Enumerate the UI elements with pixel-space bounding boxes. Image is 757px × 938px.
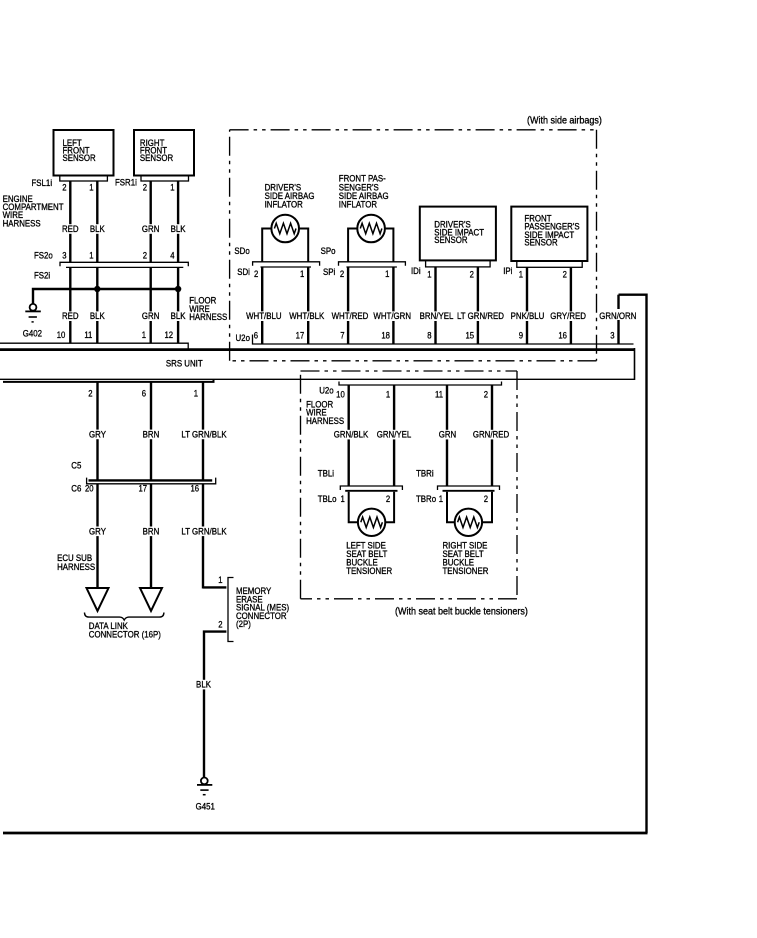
svg-text:2: 2 xyxy=(484,493,489,504)
ground G451 xyxy=(197,778,212,795)
connector MES bracket xyxy=(228,578,234,642)
connector bracket left (G402 row) with step xyxy=(0,343,188,349)
svg-text:LT GRN/BLK: LT GRN/BLK xyxy=(181,429,226,440)
connector bump right front sensor xyxy=(141,176,189,182)
connector SP bracket upper xyxy=(339,262,406,266)
svg-text:GRY/RED: GRY/RED xyxy=(550,310,586,321)
svg-text:TBRo: TBRo xyxy=(416,493,436,504)
wire GRY lower xyxy=(96,484,98,588)
wire GRN/YEL xyxy=(393,385,395,486)
wire GRN right sensor pin2 xyxy=(149,181,151,262)
wire BRN lower xyxy=(150,484,152,588)
wire GRN to SRS pin1 xyxy=(149,267,151,343)
svg-text:IDi: IDi xyxy=(411,265,421,276)
label FLOOR WIRE HARNESS xyxy=(189,295,227,322)
wire LT GRN/BLK lower xyxy=(202,484,204,589)
wire ground jumper xyxy=(33,289,178,304)
svg-text:(With side airbags): (With side airbags) xyxy=(527,115,602,127)
ground G402 xyxy=(25,304,41,322)
wire BRN upper xyxy=(150,382,152,481)
connector TBR bracket upper xyxy=(438,486,500,490)
svg-text:1: 1 xyxy=(427,269,432,280)
wire left tensioner lead 2 xyxy=(385,492,394,523)
label DRIVER'S SIDE IMPACT SENSOR xyxy=(434,219,484,246)
svg-text:4: 4 xyxy=(170,250,175,261)
wire PNK/BLU xyxy=(526,267,528,344)
wire right tensioner lead 1 xyxy=(447,492,455,523)
svg-text:CONNECTOR (16P): CONNECTOR (16P) xyxy=(89,629,161,640)
svg-text:PNK/BLU: PNK/BLU xyxy=(511,310,545,321)
svg-text:HARNESS: HARNESS xyxy=(3,218,41,229)
svg-text:10: 10 xyxy=(336,389,345,400)
connector bracket bottom-left with step xyxy=(3,379,214,382)
svg-text:2: 2 xyxy=(143,182,148,193)
svg-text:(2P): (2P) xyxy=(236,618,251,629)
box right front sensor xyxy=(134,130,194,176)
svg-text:HARNESS: HARNESS xyxy=(57,561,95,572)
wire WHT/BLU xyxy=(261,267,263,344)
svg-text:1: 1 xyxy=(439,493,444,504)
svg-text:GRN: GRN xyxy=(142,310,159,321)
wire GRY upper xyxy=(96,382,98,481)
svg-text:1: 1 xyxy=(194,388,199,399)
svg-text:7: 7 xyxy=(340,330,345,341)
wire GRN/ORN riser xyxy=(617,295,619,344)
junction dot BLK left xyxy=(94,286,100,292)
svg-text:BLK: BLK xyxy=(171,223,186,234)
svg-text:GRN/ORN: GRN/ORN xyxy=(599,310,636,321)
svg-text:WHT/BLU: WHT/BLU xyxy=(246,310,281,321)
svg-text:SENSOR: SENSOR xyxy=(140,152,173,163)
svg-text:BRN: BRN xyxy=(143,526,160,537)
svg-text:U2o: U2o xyxy=(236,332,251,343)
svg-text:BLK: BLK xyxy=(171,310,186,321)
wire RED to SRS pin10 xyxy=(69,267,71,343)
squib driver's side airbag inflator xyxy=(271,215,299,243)
svg-text:2: 2 xyxy=(218,619,223,630)
connector SD bracket upper xyxy=(253,262,320,266)
svg-text:GRY: GRY xyxy=(89,429,106,440)
svg-text:6: 6 xyxy=(254,330,259,341)
svg-text:16: 16 xyxy=(190,483,199,494)
mask behind GRN/ORN value xyxy=(599,309,637,320)
wire squib right lead xyxy=(299,229,308,263)
connector bump driver's side impact sensor xyxy=(426,260,491,267)
squib front passenger's side airbag inflator xyxy=(357,215,385,243)
SRS unit bottom edge xyxy=(0,378,635,380)
svg-text:WHT/RED: WHT/RED xyxy=(332,310,369,321)
wire GRY/RED xyxy=(570,267,572,344)
svg-text:FSR1i: FSR1i xyxy=(115,177,137,188)
svg-text:GRN/BLK: GRN/BLK xyxy=(334,429,369,440)
svg-text:BRN: BRN xyxy=(143,429,160,440)
label FRONT PASSENGER'S SIDE AIRBAG INFLATOR xyxy=(339,173,389,210)
connector SD bracket lower xyxy=(261,266,312,268)
squib left seat belt buckle tensioner xyxy=(358,509,385,536)
label LEFT FRONT SENSOR xyxy=(63,137,96,163)
terminal triangle BRN xyxy=(140,588,162,611)
wire squib left lead xyxy=(262,229,271,263)
label LEFT SIDE SEAT BELT BUCKLE TENSIONER xyxy=(346,540,392,576)
wire left tensioner lead 1 xyxy=(349,492,358,523)
svg-text:1: 1 xyxy=(385,268,390,279)
wire squib left lead xyxy=(348,229,357,263)
svg-text:17: 17 xyxy=(296,330,305,341)
wire GRN xyxy=(446,385,448,486)
label FLOOR WIRE HARNESS (tensioners) xyxy=(306,399,344,426)
wire BLK to SRS pin12 xyxy=(177,267,179,343)
svg-text:SDi: SDi xyxy=(237,266,250,277)
svg-text:SDo: SDo xyxy=(234,245,249,256)
svg-text:GRN/YEL: GRN/YEL xyxy=(377,429,412,440)
label DRIVER'S SIDE AIRBAG INFLATOR xyxy=(265,182,315,210)
svg-text:GRY: GRY xyxy=(89,526,106,537)
svg-text:HARNESS: HARNESS xyxy=(189,311,227,322)
svg-text:2: 2 xyxy=(484,389,489,400)
label MEMORY ERASE SIGNAL (MES) CONNECTOR (2P) xyxy=(236,585,289,629)
svg-text:TENSIONER: TENSIONER xyxy=(346,565,392,576)
wire LT GRN/BLK upper xyxy=(202,382,204,481)
svg-text:20: 20 xyxy=(85,483,94,494)
SRS unit top edge xyxy=(0,348,635,351)
wire squib right lead xyxy=(385,229,394,263)
svg-text:2: 2 xyxy=(470,269,475,280)
svg-text:SPo: SPo xyxy=(321,245,336,256)
svg-text:BLK: BLK xyxy=(90,310,105,321)
wire RED left sensor pin2 xyxy=(69,181,71,262)
svg-text:11: 11 xyxy=(435,389,443,400)
wire bottom continuation xyxy=(3,832,648,835)
svg-text:BLK: BLK xyxy=(196,679,211,690)
wire GRN/BLK xyxy=(348,385,350,486)
svg-text:TENSIONER: TENSIONER xyxy=(443,565,489,576)
svg-text:16: 16 xyxy=(558,330,567,341)
svg-text:1: 1 xyxy=(218,574,223,585)
svg-text:18: 18 xyxy=(381,330,390,341)
box left front sensor xyxy=(54,130,114,176)
svg-text:3: 3 xyxy=(62,250,67,261)
svg-text:9: 9 xyxy=(519,330,524,341)
svg-text:TBLo: TBLo xyxy=(318,493,337,504)
svg-text:1: 1 xyxy=(89,182,94,193)
svg-text:TBLi: TBLi xyxy=(318,468,334,479)
svg-text:SRS UNIT: SRS UNIT xyxy=(166,358,203,369)
svg-text:WHT/GRN: WHT/GRN xyxy=(373,310,411,321)
svg-text:2: 2 xyxy=(340,268,345,279)
svg-text:1: 1 xyxy=(142,329,147,340)
wire LT GRN/RED xyxy=(477,267,479,344)
svg-text:1: 1 xyxy=(89,250,94,261)
label RIGHT FRONT SENSOR xyxy=(140,137,173,163)
connector bump front passenger's side impact sensor xyxy=(517,261,582,267)
svg-text:17: 17 xyxy=(138,483,147,494)
svg-text:INFLATOR: INFLATOR xyxy=(339,199,377,210)
connector FS2 bracket lower xyxy=(66,266,183,268)
box front passenger's side impact sensor xyxy=(511,207,587,261)
svg-text:IPi: IPi xyxy=(503,265,512,276)
wire WHT/BLK xyxy=(307,267,309,344)
svg-text:1: 1 xyxy=(170,182,175,193)
wire BRN/YEL xyxy=(434,267,436,344)
svg-text:1: 1 xyxy=(300,268,305,279)
svg-text:15: 15 xyxy=(465,330,474,341)
svg-text:FS2o: FS2o xyxy=(34,250,53,261)
label FRONT PASSENGER'S SIDE IMPACT SENSOR xyxy=(524,213,579,248)
svg-text:SENSOR: SENSOR xyxy=(63,152,96,163)
svg-text:2: 2 xyxy=(88,388,93,399)
svg-text:3: 3 xyxy=(610,330,615,341)
connector TBL bracket lower xyxy=(345,490,397,492)
svg-text:LT GRN/BLK: LT GRN/BLK xyxy=(181,526,226,537)
svg-text:U2o: U2o xyxy=(319,385,334,396)
svg-text:G451: G451 xyxy=(196,801,215,812)
connector TBR bracket lower xyxy=(443,490,495,492)
connector C6 bracket xyxy=(87,478,216,484)
connector bracket U2o top row xyxy=(253,335,634,345)
squib right seat belt buckle tensioner xyxy=(455,509,482,536)
svg-text:INFLATOR: INFLATOR xyxy=(265,199,303,210)
wire MES pin2 to ground xyxy=(204,632,226,778)
svg-text:BLK: BLK xyxy=(90,223,105,234)
svg-text:GRN: GRN xyxy=(142,223,159,234)
svg-text:1: 1 xyxy=(340,493,345,504)
label ECU SUB HARNESS xyxy=(57,552,95,572)
label ENGINE COMPARTMENT WIRE HARNESS xyxy=(3,193,65,228)
connector bump left front sensor xyxy=(60,176,108,182)
svg-text:GRN: GRN xyxy=(439,429,456,440)
svg-text:10: 10 xyxy=(57,329,66,340)
svg-text:1: 1 xyxy=(519,269,524,280)
dashed boundary with seat belt buckle tensioners xyxy=(301,371,518,599)
svg-text:1: 1 xyxy=(386,389,391,400)
svg-text:2: 2 xyxy=(62,182,67,193)
svg-text:2: 2 xyxy=(254,268,259,279)
svg-text:2: 2 xyxy=(386,493,391,504)
svg-text:6: 6 xyxy=(142,388,147,399)
svg-text:SENSOR: SENSOR xyxy=(524,237,557,248)
svg-text:SPi: SPi xyxy=(323,266,335,277)
brace data link connector xyxy=(85,613,164,621)
svg-text:HARNESS: HARNESS xyxy=(306,415,344,426)
connector FS2 bracket upper xyxy=(60,262,188,266)
connector C5 end bar xyxy=(89,479,213,481)
svg-text:2: 2 xyxy=(563,269,568,280)
svg-text:RED: RED xyxy=(62,310,79,321)
box driver's side impact sensor xyxy=(420,207,496,261)
svg-text:FSL1i: FSL1i xyxy=(32,177,53,188)
svg-text:G402: G402 xyxy=(23,328,42,339)
label RIGHT SIDE SEAT BELT BUCKLE TENSIONER xyxy=(443,540,489,576)
SRS unit right edge xyxy=(634,348,636,380)
svg-text:RED: RED xyxy=(62,223,79,234)
svg-text:C6: C6 xyxy=(71,483,81,494)
wire WHT/RED xyxy=(347,267,349,344)
svg-text:TBRi: TBRi xyxy=(416,468,434,479)
connector bracket U2o lower xyxy=(339,382,502,386)
svg-text:8: 8 xyxy=(427,330,432,341)
label DATA LINK CONNECTOR (16P) xyxy=(89,620,161,639)
wire top jog to right margin xyxy=(619,295,647,833)
svg-text:(With seat belt buckle tension: (With seat belt buckle tensioners) xyxy=(395,606,528,618)
svg-text:C5: C5 xyxy=(71,460,81,471)
wire BLK right sensor pin1 xyxy=(177,181,179,262)
svg-text:GRN/RED: GRN/RED xyxy=(473,429,509,440)
wire GRN/RED xyxy=(491,385,493,486)
svg-text:BRN/YEL: BRN/YEL xyxy=(420,310,454,321)
wire BLK left sensor pin1 xyxy=(96,181,98,262)
junction dot BLK right xyxy=(175,286,181,292)
svg-text:WHT/BLK: WHT/BLK xyxy=(289,310,324,321)
wire BLK to SRS pin11 xyxy=(96,267,98,343)
connector SP bracket lower xyxy=(346,266,397,268)
svg-text:12: 12 xyxy=(164,329,173,340)
svg-text:SENSOR: SENSOR xyxy=(434,234,467,245)
connector TBL bracket upper xyxy=(340,486,402,490)
svg-text:2: 2 xyxy=(143,250,148,261)
wire right tensioner lead 2 xyxy=(482,492,492,523)
svg-text:11: 11 xyxy=(84,329,92,340)
wire WHT/GRN xyxy=(392,267,394,344)
dashed boundary with side airbags xyxy=(230,130,597,361)
svg-text:FS2i: FS2i xyxy=(34,270,50,281)
terminal triangle GRY xyxy=(87,588,109,611)
wire LT GRN/BLK to MES pin1 xyxy=(203,586,226,588)
svg-text:LT GRN/RED: LT GRN/RED xyxy=(457,310,504,321)
